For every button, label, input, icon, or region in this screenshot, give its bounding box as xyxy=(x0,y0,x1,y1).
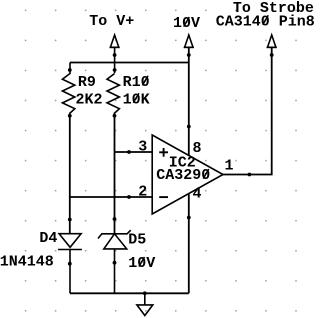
svg-text:10V: 10V xyxy=(128,255,155,272)
wire R10 to D5 xyxy=(114,116,116,234)
slash zero CA3140 xyxy=(263,15,269,25)
wire pin2 xyxy=(70,196,152,198)
junction dot R9 top xyxy=(68,68,72,72)
arrow To V+ xyxy=(110,35,120,73)
wire 10V to op-amp pin8 xyxy=(188,47,190,155)
svg-text:3: 3 xyxy=(138,138,147,155)
svg-text:10K: 10K xyxy=(123,91,150,108)
svg-text:R9: R9 xyxy=(78,74,96,91)
junction dot pin4 wire xyxy=(187,216,191,220)
svg-text:10V: 10V xyxy=(173,15,200,32)
op-amp IC2 triangle xyxy=(152,135,223,214)
junction dot R10 bottom xyxy=(113,114,117,118)
junction dot ground xyxy=(143,291,147,295)
junction dot D4 bottom xyxy=(68,262,72,266)
arrow 10V xyxy=(184,35,194,47)
diode D4 xyxy=(58,234,82,294)
wire op-amp pin4 to rail xyxy=(188,194,190,294)
svg-text:1: 1 xyxy=(225,157,234,174)
zener diode D5 xyxy=(98,230,131,293)
junction dot D4 top xyxy=(68,218,72,222)
svg-text:To V+: To V+ xyxy=(89,13,134,30)
arrow To Strobe xyxy=(267,35,277,47)
junction dot pin8 wire xyxy=(187,125,191,129)
bottom rail xyxy=(70,292,189,294)
junction dot arrow V+ stem xyxy=(113,53,117,57)
svg-text:CA3290: CA3290 xyxy=(156,167,210,184)
svg-text:CA3140 Pin8: CA3140 Pin8 xyxy=(216,13,315,30)
junction dot R10 top xyxy=(113,68,117,72)
junction dot output wire xyxy=(248,173,252,177)
op-amp minus input mark xyxy=(159,196,168,198)
wire top rail V+ xyxy=(70,62,189,64)
wire pin3 xyxy=(115,151,153,153)
op-amp plus input mark xyxy=(159,148,168,157)
resistor R10 xyxy=(107,74,119,117)
svg-text:D4: D4 xyxy=(39,230,57,247)
slash zero 10K xyxy=(133,93,139,103)
svg-text:4: 4 xyxy=(193,186,202,203)
junction dot strobe arrow stem xyxy=(270,53,274,57)
slash zero 10V zener xyxy=(139,257,145,267)
svg-text:2: 2 xyxy=(138,184,147,201)
junction dot 10V arrow stem xyxy=(187,53,191,57)
junction dot D5 bottom xyxy=(113,261,117,265)
junction dot R9 bottom xyxy=(68,114,72,118)
svg-text:D5: D5 xyxy=(128,232,146,249)
wire R9 to D4 xyxy=(69,116,71,234)
svg-text:1N4148: 1N4148 xyxy=(0,253,54,270)
svg-text:2K2: 2K2 xyxy=(76,91,103,108)
slash zero 10V supply xyxy=(184,17,190,27)
slash zero CA3290 xyxy=(203,169,209,179)
svg-text:R10: R10 xyxy=(123,74,150,91)
resistor R9 xyxy=(62,63,74,117)
junction dot pin3 wire xyxy=(127,150,131,154)
junction dot pin2 wire xyxy=(127,195,131,199)
slash zero R10 xyxy=(142,76,148,86)
wire strobe column to op-amp output xyxy=(223,47,272,174)
junction dot D5 top xyxy=(113,217,117,221)
ground xyxy=(137,293,153,315)
